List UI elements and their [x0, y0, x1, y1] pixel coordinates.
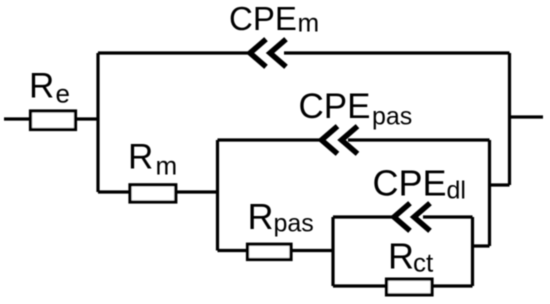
svg-text:CPE: CPE [373, 163, 447, 204]
svg-text:pas: pas [274, 210, 314, 238]
svg-text:R: R [29, 67, 54, 106]
svg-text:ct: ct [413, 248, 434, 278]
svg-text:CPE: CPE [229, 0, 297, 37]
svg-text:R: R [248, 196, 274, 237]
svg-text:CPE: CPE [299, 87, 371, 126]
svg-text:dl: dl [447, 177, 466, 205]
svg-text:R: R [388, 236, 414, 277]
svg-text:e: e [56, 79, 70, 109]
svg-text:m: m [298, 8, 320, 38]
svg-text:R: R [128, 138, 153, 177]
svg-text:pas: pas [372, 103, 412, 131]
svg-text:m: m [156, 151, 178, 181]
